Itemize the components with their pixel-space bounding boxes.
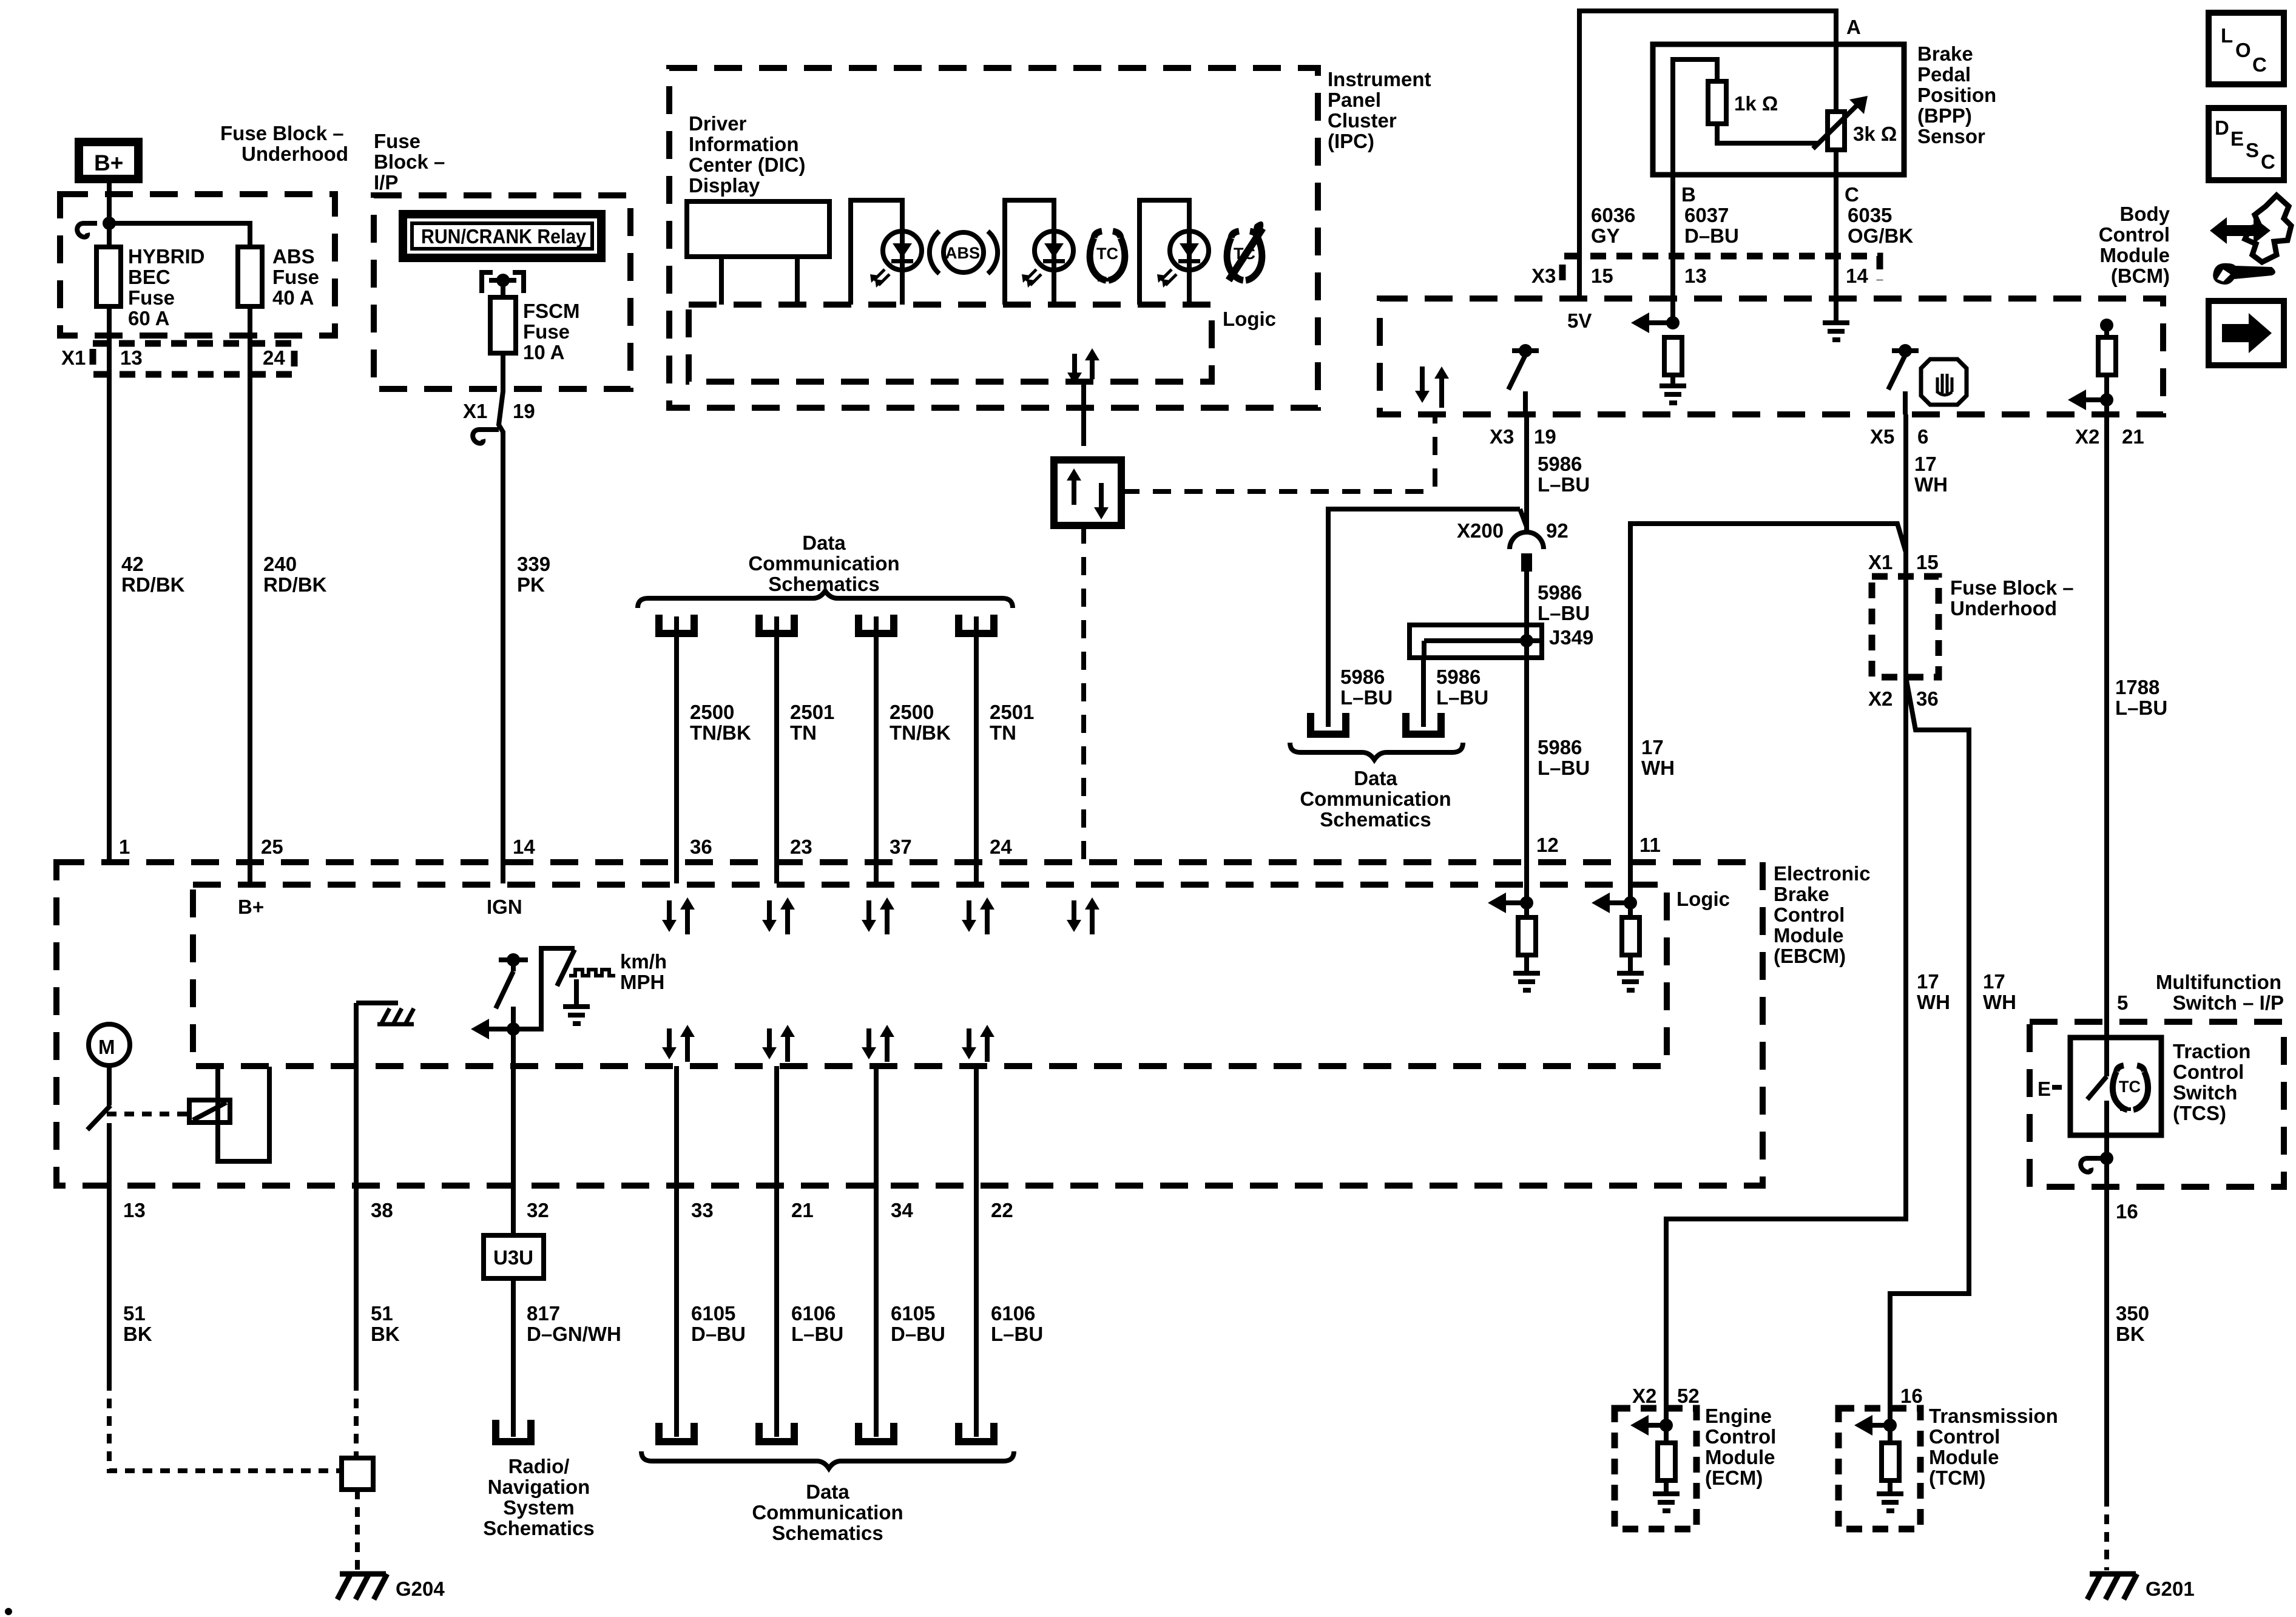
svg-text:240: 240 [263, 553, 297, 575]
connector terminal 21 bottom [759, 1423, 794, 1442]
svg-text:1k Ω: 1k Ω [1734, 92, 1778, 115]
wire label 2500 TN/BK a [690, 701, 751, 744]
svg-text:TN: TN [790, 721, 817, 744]
indicator driver loop 2 [1005, 200, 1054, 305]
dashed lead to G201 [2104, 1497, 2109, 1570]
svg-text:G204: G204 [396, 1578, 445, 1600]
icon box DESC [2209, 108, 2284, 180]
ECM dashed box [1615, 1408, 1697, 1529]
svg-text:Body: Body [2120, 203, 2170, 225]
wire 6037 D-BU [1670, 175, 1675, 325]
wire label 5986 L-BU c [1538, 581, 1590, 624]
svg-text:L–BU: L–BU [1538, 757, 1590, 779]
label Engine Control Module (ECM) [1705, 1405, 1776, 1489]
fuse block underhood dashed box [60, 194, 335, 336]
DIC leg wire left [719, 257, 724, 305]
fuse ABS 40A [238, 247, 262, 306]
resistor ECM [1658, 1425, 1675, 1491]
wire X3-19 5986 to X200 [1524, 414, 1529, 530]
svg-text:IGN: IGN [487, 896, 522, 918]
splice U3U box [484, 1235, 544, 1278]
svg-text:D: D [2215, 116, 2229, 139]
serial arrows pin23 [762, 897, 795, 934]
svg-text:TN/BK: TN/BK [890, 721, 951, 744]
svg-text:24: 24 [990, 836, 1012, 858]
page corner dot [5, 1608, 12, 1615]
brake warn hand octagon [1921, 359, 1967, 405]
svg-text:11: 11 [1639, 834, 1661, 856]
svg-text:Brake: Brake [1774, 883, 1829, 905]
arrow TCM input [1854, 1415, 1897, 1436]
svg-text:Schematics: Schematics [1320, 808, 1431, 831]
svg-text:WH: WH [1983, 991, 2016, 1013]
svg-text:6037: 6037 [1684, 204, 1729, 226]
svg-text:Navigation: Navigation [488, 1476, 590, 1498]
svg-text:23: 23 [790, 836, 812, 858]
IPC outer dashed box [669, 68, 1318, 408]
svg-text:Brake: Brake [1917, 42, 1973, 65]
wire label 17 WH c [1983, 970, 2016, 1013]
svg-text:1: 1 [119, 836, 130, 858]
wire 6036 GY [1577, 296, 1582, 301]
svg-text:TC: TC [2119, 1078, 2141, 1096]
km/h MPH lower contact [511, 1007, 516, 1029]
junction node relay output [496, 274, 510, 287]
wire label 2501 TN a [790, 701, 834, 744]
svg-text:TN/BK: TN/BK [690, 721, 751, 744]
ground G204 [337, 1574, 387, 1599]
label Driver Information Center (DIC) Display [689, 112, 806, 197]
svg-text:Display: Display [689, 174, 760, 197]
svg-text:Pedal: Pedal [1917, 63, 1971, 86]
svg-text:38: 38 [371, 1199, 393, 1221]
arrow ECM input [1630, 1415, 1673, 1436]
resistor TCM [1882, 1425, 1899, 1491]
svg-text:14: 14 [1846, 265, 1868, 287]
svg-text:Control: Control [2173, 1061, 2244, 1083]
serial interface box [1054, 460, 1121, 525]
LED lamp 2 [1022, 231, 1073, 305]
svg-text:Fuse: Fuse [272, 266, 319, 288]
svg-text:RUN/CRANK Relay: RUN/CRANK Relay [421, 225, 587, 248]
switch BCM X3-19 [1508, 344, 1539, 414]
svg-text:817: 817 [527, 1302, 560, 1325]
svg-text:60 A: 60 A [128, 307, 169, 329]
label Electronic Brake Control Module (EBCM) [1774, 862, 1871, 967]
connector terminal radio nav [496, 1420, 531, 1442]
svg-text:5986: 5986 [1538, 736, 1582, 758]
svg-text:350: 350 [2116, 1302, 2149, 1325]
label ABS Fuse 40 A [272, 245, 319, 309]
svg-text:Module: Module [1705, 1446, 1775, 1468]
label Multifunction Switch - I/P [2156, 971, 2284, 1014]
wire 17 WH riser [1630, 524, 1906, 862]
svg-text:D–BU: D–BU [1684, 224, 1739, 247]
svg-text:17: 17 [1641, 736, 1664, 758]
connector X3 BCM dashed row [1562, 256, 1880, 280]
svg-text:WH: WH [1641, 757, 1675, 779]
EBCM serial terminator pin 12 [1488, 862, 1540, 993]
svg-text:ABS: ABS [945, 244, 980, 262]
svg-text:Multifunction: Multifunction [2156, 971, 2281, 993]
resistor BCM X2-21 [2098, 319, 2116, 414]
svg-text:L–BU: L–BU [2115, 697, 2167, 719]
svg-text:(IPC): (IPC) [1328, 130, 1374, 152]
svg-text:Switch – I/P: Switch – I/P [2173, 991, 2284, 1014]
wire switch to pin 13 [107, 1123, 112, 1381]
fuse block I/P dashed box [374, 195, 630, 389]
dashed relay control link [107, 1112, 189, 1116]
EBCM serial terminator pin 11 [1592, 862, 1644, 993]
wire label 5986 L-BU e [1538, 736, 1590, 779]
svg-text:BEC: BEC [128, 266, 171, 288]
connector X1 underhood dashed box [93, 343, 294, 374]
svg-text:2501: 2501 [790, 701, 834, 723]
label X1 15 fuse block [1868, 551, 1939, 573]
svg-text:BK: BK [371, 1323, 400, 1345]
svg-text:A: A [1846, 16, 1861, 38]
dashed serial line IPC to EBCM [1081, 525, 1086, 861]
svg-text:(EBCM): (EBCM) [1774, 945, 1846, 967]
svg-text:6035: 6035 [1848, 204, 1892, 226]
label X1 19 [463, 400, 535, 422]
indicator symbol TC tire [1090, 231, 1125, 280]
wire branch to ABS fuse [109, 223, 250, 247]
svg-text:MPH: MPH [620, 971, 664, 993]
svg-text:32: 32 [527, 1199, 549, 1221]
svg-text:5986: 5986 [1436, 666, 1481, 688]
svg-text:Driver: Driver [689, 112, 747, 135]
wire 6035 OG/BK [1834, 175, 1838, 318]
svg-text:Module: Module [1929, 1446, 1999, 1468]
svg-text:Electronic: Electronic [1774, 862, 1871, 885]
svg-text:10 A: 10 A [523, 341, 564, 363]
wire label 6105 D-BU a [691, 1302, 746, 1345]
BPP inner wiper wire [1673, 59, 1717, 175]
svg-text:19: 19 [513, 400, 535, 422]
fuse FSCM 10A [490, 297, 516, 353]
EBCM inner logic dashed box [193, 885, 1667, 1066]
indicator driver loop 3 [1140, 200, 1189, 305]
svg-text:Underhood: Underhood [241, 143, 348, 165]
svg-text:WH: WH [1914, 473, 1948, 496]
svg-text:G201: G201 [2146, 1578, 2195, 1600]
pump motor M [89, 1024, 130, 1065]
indicator symbol (ABS) [930, 231, 998, 274]
IPC inner logic dashed box [689, 305, 1212, 382]
svg-text:O: O [2235, 39, 2251, 61]
wire 350 BK [2104, 1158, 2109, 1497]
svg-text:RD/BK: RD/BK [263, 573, 327, 596]
svg-text:(BPP): (BPP) [1917, 104, 1972, 127]
svg-text:L–BU: L–BU [1538, 602, 1590, 624]
svg-text:Module: Module [2100, 244, 2170, 266]
svg-text:Engine: Engine [1705, 1405, 1772, 1427]
svg-text:I/P: I/P [374, 171, 398, 194]
pulse sender blade [557, 950, 575, 986]
serial arrows pin24 [962, 897, 994, 934]
relay coil box [189, 1100, 230, 1122]
wire fuse 24 output [248, 306, 252, 885]
relay RUN/CRANK box [399, 210, 606, 262]
svg-text:37: 37 [890, 836, 912, 858]
icon box arrow [2209, 301, 2284, 365]
ground TCM [1877, 1491, 1903, 1513]
svg-text:M: M [98, 1036, 115, 1058]
svg-text:BK: BK [2116, 1323, 2145, 1345]
ground BCM B [1660, 383, 1686, 405]
svg-text:Instrument: Instrument [1328, 68, 1431, 90]
label X5 6 wire 17 WH [1914, 453, 1948, 496]
svg-text:12: 12 [1536, 834, 1559, 856]
serial data arrows in IPC logic [1067, 348, 1099, 385]
serial arrows pin36 [662, 897, 695, 934]
ground BCM C [1823, 318, 1849, 342]
svg-text:6105: 6105 [891, 1302, 935, 1325]
indicator driver loop 1 [851, 200, 902, 305]
wire B+ feed down [107, 183, 112, 247]
svg-text:19: 19 [1534, 425, 1556, 448]
pump switch blade [87, 1106, 110, 1130]
svg-text:B+: B+ [238, 896, 264, 918]
fuse block underhood pass dashed box [1872, 576, 1939, 677]
svg-text:2501: 2501 [990, 701, 1034, 723]
svg-text:Cluster: Cluster [1328, 109, 1397, 132]
connector curl TCS out [2081, 1152, 2113, 1172]
svg-text:X3: X3 [1531, 265, 1556, 287]
connector X200 [1510, 532, 1544, 572]
wire to TCM jog [1890, 677, 1969, 1425]
connector curl at X1 19 [473, 430, 499, 444]
switch BCM X5-6 [1888, 344, 1919, 414]
svg-text:X5: X5 [1870, 425, 1894, 448]
svg-text:X200: X200 [1457, 519, 1504, 542]
wire 51 BK a tail dashed [109, 1381, 340, 1471]
connector terminal 33 bottom [659, 1423, 694, 1442]
svg-text:17: 17 [1983, 970, 2005, 993]
wire 51 BK b tail dashed [354, 1381, 359, 1458]
label X5 6 below BCM [1870, 425, 1928, 448]
svg-text:Fuse: Fuse [128, 286, 175, 309]
label X2 36 [1868, 687, 1939, 710]
arrow speed signal left [471, 1019, 513, 1039]
svg-text:15: 15 [1916, 551, 1939, 573]
wire fuse 13 output [107, 306, 112, 863]
BPP sensor outer loop wire [1579, 11, 1836, 299]
connector terminal 22 bottom [959, 1423, 994, 1442]
svg-text:22: 22 [991, 1199, 1013, 1221]
svg-text:X2: X2 [2075, 425, 2099, 448]
wire speed out to pin 32 [511, 1029, 516, 1235]
wire label 6035 OG/BK [1848, 204, 1913, 247]
junction node speed signal [507, 1022, 520, 1036]
connector terminal wire 2500 a [659, 615, 694, 883]
svg-text:E: E [2038, 1078, 2051, 1100]
wire label 6106 L-BU b [991, 1302, 1043, 1345]
svg-text:51: 51 [123, 1302, 146, 1325]
relay frame bracket [218, 1067, 269, 1161]
svg-text:14: 14 [513, 836, 535, 858]
connector terminal wire 2501 b [959, 615, 994, 883]
svg-text:X1: X1 [463, 400, 487, 422]
wire label 2500 TN/BK b [890, 701, 951, 744]
svg-text:2500: 2500 [690, 701, 734, 723]
wire label 6105 D-BU b [891, 1302, 945, 1345]
svg-text:L: L [2221, 24, 2233, 47]
label Data Communication Schematics bottom [752, 1480, 903, 1544]
svg-text:24: 24 [263, 346, 285, 369]
wire label 2501 TN b [990, 701, 1034, 744]
branch wire J349 down [1421, 658, 1426, 727]
wire motor to switch [107, 1065, 112, 1106]
svg-text:Control: Control [1705, 1425, 1776, 1448]
label Data Communication Schematics top [748, 532, 899, 595]
svg-text:Communication: Communication [1300, 788, 1451, 810]
svg-text:51: 51 [371, 1302, 393, 1325]
svg-text:C: C [2261, 150, 2275, 173]
svg-text:Block –: Block – [374, 150, 445, 173]
DIC display box [687, 201, 829, 257]
TCS switch box [2070, 1038, 2161, 1135]
serial arrows pin21 [762, 1025, 795, 1062]
svg-text:15: 15 [1591, 265, 1613, 287]
wire 33 lower [674, 1066, 679, 1437]
LED lamp 3 [1157, 231, 1209, 305]
BCM outer dashed box [1380, 299, 2163, 414]
svg-text:5V: 5V [1567, 309, 1592, 332]
svg-text:J349: J349 [1549, 626, 1593, 649]
wire X200 to J349 [1524, 572, 1529, 862]
arrow BCM X2-21 left [2068, 390, 2113, 410]
svg-text:C: C [1845, 183, 1859, 206]
svg-text:B+: B+ [94, 150, 123, 175]
svg-text:L–BU: L–BU [1436, 686, 1488, 709]
svg-text:TN: TN [990, 721, 1016, 744]
connector terminal 5986 left [1311, 713, 1346, 734]
svg-text:D–GN/WH: D–GN/WH [527, 1323, 621, 1345]
svg-text:X3: X3 [1490, 425, 1514, 448]
wire BCM X5-6 down [1903, 414, 1908, 575]
svg-text:6: 6 [1917, 425, 1928, 448]
svg-text:Data: Data [1354, 767, 1397, 789]
svg-text:Underhood: Underhood [1950, 597, 2057, 619]
svg-text:km/h: km/h [620, 950, 667, 973]
icon box LOC [2209, 13, 2284, 84]
DIC leg wire right [795, 257, 800, 305]
LED lamp 1 [870, 231, 922, 305]
svg-text:Position: Position [1917, 84, 1996, 106]
svg-text:Communication: Communication [748, 552, 899, 575]
ground ECM [1653, 1491, 1680, 1513]
svg-text:16: 16 [2116, 1200, 2138, 1223]
svg-text:339: 339 [517, 553, 550, 575]
svg-text:Switch: Switch [2173, 1081, 2237, 1104]
svg-text:Radio/: Radio/ [508, 1455, 570, 1477]
arrow 5V reference left [1631, 312, 1680, 333]
svg-text:E: E [2230, 127, 2244, 150]
svg-text:X2: X2 [1632, 1385, 1656, 1407]
serial arrows pin34 [862, 1025, 894, 1062]
wire label 240 RD/BK [263, 553, 327, 596]
svg-text:U3U: U3U [493, 1246, 533, 1269]
label Body Control Module (BCM) [2099, 203, 2170, 287]
svg-text:13: 13 [1684, 265, 1707, 287]
wire 1k to pot wiper [1717, 124, 1818, 143]
svg-text:5986: 5986 [1340, 666, 1385, 688]
svg-text:21: 21 [2122, 425, 2144, 448]
dashed link E to TCS [2052, 1085, 2070, 1090]
svg-text:X2: X2 [1868, 687, 1893, 710]
wire label 51 BK a [123, 1302, 152, 1345]
svg-text:(ECM): (ECM) [1705, 1467, 1763, 1489]
svg-text:Schematics: Schematics [483, 1517, 594, 1539]
svg-text:Logic: Logic [1223, 308, 1276, 330]
svg-text:S: S [2246, 139, 2259, 161]
TCS TC tire symbol [2113, 1065, 2148, 1110]
multifunction switch dashed box [2030, 1022, 2284, 1187]
wire label 1788 L-BU [2115, 676, 2167, 719]
label X3 19 below BCM [1490, 425, 1556, 448]
svg-text:Traction: Traction [2173, 1040, 2250, 1062]
label X2 21 below BCM [2075, 425, 2144, 448]
svg-text:Schematics: Schematics [772, 1522, 883, 1544]
wire label 6036 GY [1591, 204, 1635, 247]
TCM dashed box [1838, 1408, 1920, 1529]
wire label 17 WH a [1641, 736, 1675, 779]
potentiometer 3k [1813, 44, 1868, 175]
svg-text:L–BU: L–BU [1340, 686, 1393, 709]
svg-text:5986: 5986 [1538, 453, 1582, 475]
serial arrows pin22 [962, 1025, 994, 1062]
pulse sender ground [563, 979, 590, 1026]
svg-text:Module: Module [1774, 924, 1843, 947]
svg-text:Data: Data [802, 532, 846, 554]
dashed serial line to BCM [1121, 417, 1435, 491]
label Fuse Block - I/P [374, 130, 445, 194]
svg-text:GY: GY [1591, 224, 1620, 247]
icon adjuster arrow pedal [2210, 195, 2291, 262]
wire label 350 BK [2116, 1302, 2149, 1345]
svg-text:BK: BK [123, 1323, 152, 1345]
svg-text:13: 13 [123, 1199, 146, 1221]
fuse HYBRID BEC 60A [96, 247, 121, 306]
svg-text:36: 36 [690, 836, 712, 858]
ground bracket pin 38 [356, 1003, 414, 1024]
svg-text:B: B [1681, 183, 1696, 206]
pulse signal symbol [569, 970, 615, 976]
branch wire to data comm left [1328, 509, 1527, 727]
icon wrench [2213, 263, 2275, 285]
label Radio Navigation System Schematics [483, 1455, 594, 1539]
svg-text:WH: WH [1917, 991, 1950, 1013]
svg-text:17: 17 [1917, 970, 1939, 993]
svg-text:92: 92 [1546, 519, 1568, 542]
branch wire to pulse sender [513, 948, 575, 1029]
svg-text:FSCM: FSCM [523, 300, 580, 322]
svg-text:X1: X1 [1868, 551, 1893, 573]
connector curl at B+ node [77, 223, 97, 237]
label Traction Control Switch (TCS) [2173, 1040, 2250, 1124]
wire FSCM output 339 PK [499, 353, 503, 883]
svg-text:25: 25 [261, 836, 283, 858]
label Brake Pedal Position (BPP) Sensor [1917, 42, 1996, 147]
svg-text:6105: 6105 [691, 1302, 735, 1325]
wire IPC serial to interface box [1081, 382, 1086, 428]
wire label 817 D-GN/WH [527, 1302, 621, 1345]
connector terminal wire 2501 a [759, 615, 794, 883]
svg-text:L–BU: L–BU [991, 1323, 1043, 1345]
junction node B+ splice [103, 217, 116, 230]
